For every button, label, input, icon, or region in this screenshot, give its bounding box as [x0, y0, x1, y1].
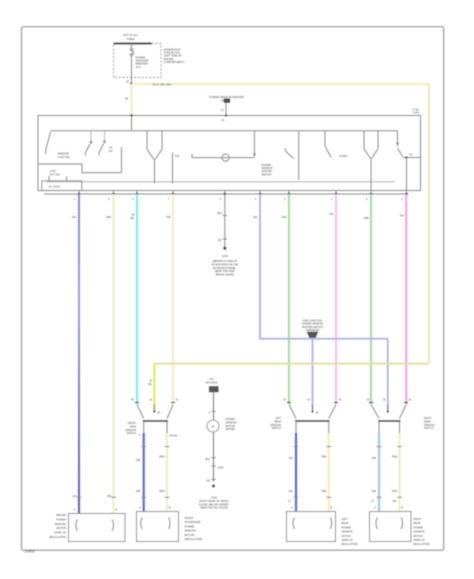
- svg-text:DR DN: DR DN: [170, 435, 178, 438]
- svg-text:A1 LOGIC: A1 LOGIC: [49, 185, 61, 188]
- svg-text:POWER: POWER: [185, 524, 195, 528]
- svg-text:26A: 26A: [282, 215, 287, 219]
- svg-text:40: 40: [125, 97, 128, 101]
- svg-text:POWER WINDOW MASTER: POWER WINDOW MASTER: [209, 95, 244, 99]
- svg-text:SWITCH: SWITCH: [272, 427, 282, 430]
- svg-text:SWITCH: SWITCH: [262, 173, 272, 176]
- svg-text:SWITCH: SWITCH: [424, 427, 434, 430]
- svg-text:YEL: YEL: [147, 383, 152, 386]
- svg-text:REGULATOR): REGULATOR): [49, 535, 66, 539]
- svg-text:150: 150: [218, 239, 223, 242]
- svg-text:22B: 22B: [136, 490, 141, 493]
- svg-text:C100: C100: [413, 112, 420, 115]
- svg-text:HOT AT ALL: HOT AT ALL: [123, 33, 138, 37]
- svg-text:REAR: REAR: [414, 522, 421, 525]
- svg-text:REGULATOR): REGULATOR): [414, 543, 430, 546]
- svg-text:DR DOOR: DR DOOR: [206, 381, 218, 384]
- svg-text:22A: 22A: [73, 495, 78, 498]
- svg-text:WINDOW: WINDOW: [185, 529, 197, 533]
- svg-text:SWITCH: SWITCH: [127, 432, 137, 435]
- svg-text:DRIVER: DRIVER: [226, 428, 236, 431]
- svg-text:REAR: REAR: [342, 522, 349, 525]
- svg-text:26B: 26B: [364, 216, 369, 220]
- svg-text:(PART OF: (PART OF: [414, 539, 426, 542]
- svg-text:26B: 26B: [372, 457, 377, 460]
- svg-text:866: 866: [107, 495, 112, 498]
- svg-text:A7: A7: [221, 108, 225, 112]
- svg-text:12453: 12453: [25, 549, 35, 553]
- svg-text:22B: 22B: [136, 459, 141, 462]
- svg-text:POWER: POWER: [414, 526, 424, 529]
- svg-text:15: 15: [221, 99, 224, 103]
- svg-text:(PART OF: (PART OF: [54, 531, 66, 535]
- svg-text:866A: 866A: [159, 456, 165, 459]
- svg-text:866A: 866A: [159, 490, 165, 493]
- svg-text:LOCK SW: LOCK SW: [58, 155, 71, 159]
- svg-text:26: 26: [132, 213, 135, 217]
- svg-text:BLK: BLK: [217, 211, 222, 215]
- svg-text:OUT SW: OUT SW: [50, 173, 61, 176]
- svg-text:RIGHT: RIGHT: [414, 518, 422, 521]
- svg-text:(HARNESS): (HARNESS): [306, 329, 320, 332]
- svg-text:POWER: POWER: [342, 526, 352, 529]
- svg-text:F30: F30: [175, 155, 180, 158]
- svg-text:766A: 766A: [321, 456, 327, 459]
- svg-text:REGULATOR): REGULATOR): [342, 543, 358, 546]
- svg-text:764: 764: [329, 212, 334, 216]
- svg-text:26B: 26B: [372, 490, 377, 493]
- svg-text:LBL: LBL: [130, 216, 135, 220]
- svg-text:NEAR THE SILL PLATE): NEAR THE SILL PLATE): [200, 507, 228, 510]
- svg-text:PASSENGER: PASSENGER: [185, 520, 201, 524]
- svg-text:DN: DN: [109, 150, 113, 153]
- svg-text:360: 360: [393, 500, 398, 503]
- svg-text:162: 162: [253, 215, 258, 219]
- svg-text:26A: 26A: [289, 490, 294, 493]
- svg-text:WINDOW: WINDOW: [414, 531, 426, 534]
- svg-text:WINDOW: WINDOW: [342, 531, 354, 534]
- svg-text:G200: G200: [222, 255, 229, 258]
- svg-text:(PART OF: (PART OF: [342, 539, 354, 542]
- svg-text:766: 766: [166, 215, 171, 219]
- svg-text:DOWN: DOWN: [340, 155, 348, 158]
- svg-text:UP: UP: [409, 154, 413, 157]
- svg-text:MOTOR: MOTOR: [342, 535, 351, 538]
- svg-text:765: 765: [400, 214, 405, 218]
- svg-text:TIMES: TIMES: [126, 37, 134, 41]
- svg-text:LEFT: LEFT: [342, 518, 349, 521]
- svg-text:C2 5 YEL 340: C2 5 YEL 340: [153, 83, 172, 87]
- svg-text:25 A: 25 A: [136, 65, 141, 69]
- svg-text:22A: 22A: [72, 215, 77, 219]
- svg-text:BRAKE LEVER): BRAKE LEVER): [216, 274, 234, 277]
- svg-text:766A: 766A: [321, 490, 327, 493]
- svg-text:150: 150: [206, 480, 211, 483]
- svg-text:WINDOW: WINDOW: [55, 522, 67, 526]
- svg-text:DRIVER: DRIVER: [56, 513, 66, 517]
- svg-text:FRONT: FRONT: [185, 516, 194, 520]
- svg-text:MOTOR: MOTOR: [185, 533, 195, 537]
- svg-text:(REGULATOR): (REGULATOR): [185, 537, 203, 541]
- svg-text:MOTOR: MOTOR: [56, 526, 66, 530]
- svg-text:BLK: BLK: [205, 458, 210, 461]
- svg-text:WINDOW: WINDOW: [58, 152, 70, 156]
- svg-text:765A: 765A: [392, 490, 398, 493]
- svg-text:765A: 765A: [392, 456, 398, 459]
- svg-text:866: 866: [107, 215, 112, 219]
- svg-text:G302: G302: [218, 466, 225, 469]
- svg-text:MOTOR: MOTOR: [414, 535, 423, 538]
- svg-text:COMPARTMENT): COMPARTMENT): [164, 60, 185, 64]
- svg-text:26A: 26A: [289, 457, 294, 460]
- svg-text:POWER: POWER: [56, 517, 66, 521]
